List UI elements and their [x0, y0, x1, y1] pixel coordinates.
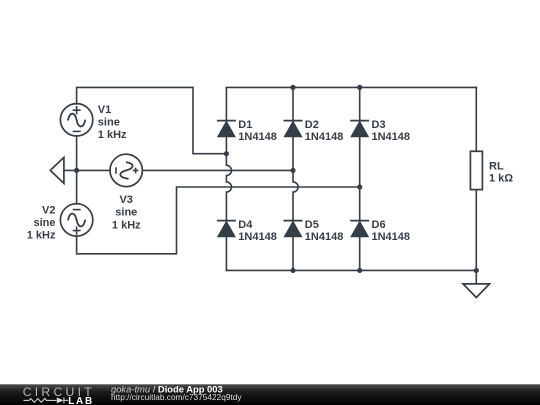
wire leg1 with hops: [226, 88, 231, 270]
wire leg2 with hop: [293, 88, 298, 270]
input arrow: [50, 157, 64, 183]
svg-text:D3: D3: [372, 119, 386, 131]
diode D3: [350, 121, 369, 137]
wire V3 to leg2: [142, 169, 293, 171]
node wire3-leg3: [357, 184, 362, 189]
svg-text:sine: sine: [98, 117, 120, 129]
wire top rail: [226, 86, 476, 88]
svg-text:1N4148: 1N4148: [238, 231, 277, 243]
voltage source V2: [60, 204, 92, 236]
wire bottom rail: [226, 269, 476, 271]
node junction V sources: [74, 168, 79, 173]
wire RL bottom: [475, 190, 477, 271]
label V1: [98, 104, 127, 141]
svg-text:1 kHz: 1 kHz: [112, 220, 141, 232]
svg-text:1 kHz: 1 kHz: [98, 129, 127, 141]
label D4: [238, 219, 277, 243]
svg-text:D4: D4: [238, 219, 253, 231]
svg-text:V3: V3: [119, 194, 132, 206]
footer logo resistor-diode symbol: [24, 397, 64, 403]
label V2: [27, 204, 56, 241]
label D3: [372, 119, 411, 143]
wire V1 top loop: [77, 87, 225, 153]
svg-text:1 kΩ: 1 kΩ: [489, 173, 513, 185]
node wire1-leg1: [224, 151, 229, 156]
label D2: [305, 119, 344, 143]
wire ground stub: [475, 270, 477, 284]
svg-text:D1: D1: [238, 119, 252, 131]
svg-text:LAB: LAB: [68, 396, 94, 405]
node wire2-leg2: [290, 168, 295, 173]
voltage source V1: [60, 104, 92, 136]
node bottom rail leg2: [290, 268, 295, 273]
svg-text:1N4148: 1N4148: [238, 131, 277, 143]
voltage source V3: [110, 154, 142, 186]
svg-text:1N4148: 1N4148: [372, 231, 411, 243]
svg-text:sine: sine: [115, 207, 137, 219]
plus of V3: [133, 168, 139, 174]
diode D2: [284, 121, 303, 137]
node bottom rail RL: [474, 268, 479, 273]
svg-text:1N4148: 1N4148: [372, 131, 411, 143]
diode D4: [217, 221, 236, 237]
svg-text:1N4148: 1N4148: [305, 131, 344, 143]
node top rail leg2: [290, 85, 295, 90]
wire V2 bottom loop: [77, 187, 360, 254]
svg-text:D6: D6: [372, 219, 386, 231]
footer bar: [0, 384, 540, 405]
svg-text:sine: sine: [33, 217, 55, 229]
diode D1: [217, 121, 236, 137]
label D6: [372, 219, 411, 243]
svg-text:1N4148: 1N4148: [305, 231, 344, 243]
wire arrow to V3: [64, 169, 110, 171]
diode D5: [284, 221, 303, 237]
label D5: [305, 219, 344, 243]
svg-text:V1: V1: [98, 104, 111, 116]
wire leg3: [359, 88, 361, 270]
wire V1-V2 vertical: [76, 136, 78, 204]
resistor RL: [470, 151, 482, 189]
svg-text:D2: D2: [305, 119, 319, 131]
node top rail leg3: [357, 85, 362, 90]
label D1: [238, 119, 277, 143]
diode D6: [350, 221, 369, 237]
svg-text:RL: RL: [489, 160, 504, 172]
ground: [463, 284, 490, 298]
svg-text:1 kHz: 1 kHz: [27, 229, 56, 241]
svg-text:D5: D5: [305, 219, 319, 231]
wire RL top: [475, 87, 477, 151]
node bottom rail leg3: [357, 268, 362, 273]
svg-text:V2: V2: [42, 204, 55, 216]
label RL: [489, 160, 513, 184]
label V3: [112, 194, 141, 232]
svg-text:http://circuitlab.com/c7375422: http://circuitlab.com/c7375422q9tdy: [111, 392, 242, 402]
